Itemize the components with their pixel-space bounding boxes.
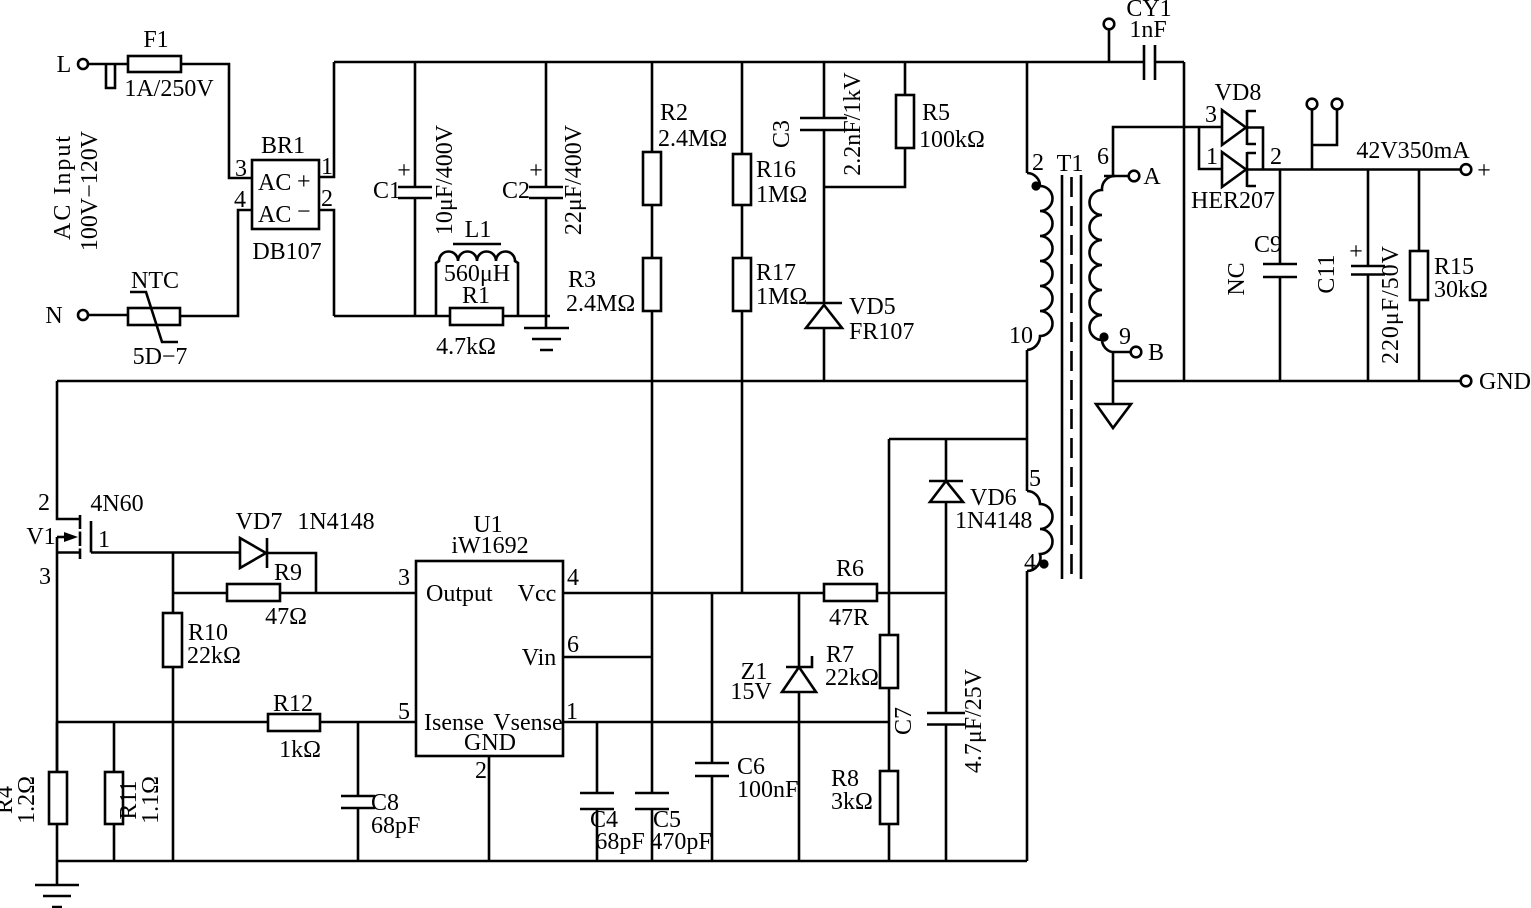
terminal N (45, 303, 88, 329)
capacitor C3 2.2nF/1kV (769, 62, 866, 187)
wire secondary ground rail (1113, 380, 1461, 383)
node B terminal (1112, 340, 1164, 366)
svg-text:VD7: VD7 (236, 509, 283, 535)
wire pin9 to secondary ground rail (1112, 352, 1115, 404)
svg-text:2: 2 (475, 758, 487, 784)
svg-text:1nF: 1nF (1129, 17, 1166, 43)
MOSFET V1 4N60 (26, 381, 143, 772)
svg-text:VD5: VD5 (849, 294, 896, 320)
svg-text:1MΩ: 1MΩ (756, 284, 807, 310)
svg-text:FR107: FR107 (849, 319, 914, 345)
svg-text:C7: C7 (891, 707, 917, 735)
svg-text:1N4148: 1N4148 (297, 509, 374, 535)
svg-text:4: 4 (567, 565, 579, 591)
wire primary ground rail (57, 860, 1027, 863)
svg-text:1: 1 (1206, 144, 1218, 170)
svg-text:+: + (1477, 158, 1491, 184)
svg-text:22μF/400V: 22μF/400V (561, 124, 587, 235)
wire DC- input rail (334, 315, 550, 318)
wire U1 pin6 Vin to R3/C5 node (563, 656, 652, 659)
svg-text:C11: C11 (1314, 254, 1340, 293)
svg-text:10μF/400V: 10μF/400V (432, 124, 458, 235)
svg-text:22kΩ: 22kΩ (187, 643, 241, 669)
ground (secondary, triangle) (1096, 404, 1131, 428)
svg-text:+: + (1349, 239, 1363, 265)
capacitor C4 68pF (580, 722, 645, 861)
IC U1 iW1692 (398, 512, 579, 784)
svg-text:C9: C9 (1254, 232, 1282, 258)
resistor R17 1M (733, 258, 807, 593)
transformer core (1062, 175, 1081, 579)
capacitor C2 22uF/400V (502, 62, 587, 316)
svg-text:30kΩ: 30kΩ (1434, 277, 1488, 303)
svg-text:Output: Output (426, 581, 493, 607)
svg-text:R9: R9 (274, 560, 302, 586)
svg-text:Vin: Vin (522, 645, 557, 671)
svg-text:1A/250V: 1A/250V (124, 76, 214, 102)
capacitor C7 4.7uF/25V (891, 593, 987, 861)
svg-text:F1: F1 (143, 27, 168, 53)
svg-text:R5: R5 (922, 100, 950, 126)
wire primary switch-node rail (57, 380, 1027, 383)
svg-text:R6: R6 (836, 556, 864, 582)
wire aux pin4 to primary ground rail (1026, 571, 1029, 861)
resistor R5 100k (824, 62, 985, 187)
diode VD7 1N4148 (236, 509, 375, 593)
svg-text:+: + (297, 169, 311, 195)
ground (primary DC-) (524, 316, 569, 350)
svg-text:3kΩ: 3kΩ (831, 789, 873, 815)
svg-text:1kΩ: 1kΩ (279, 737, 321, 763)
svg-text:R1: R1 (462, 283, 490, 309)
svg-text:10: 10 (1009, 323, 1033, 349)
bridge rectifier BR1 DB107 (234, 133, 333, 265)
svg-text:1.1Ω: 1.1Ω (138, 776, 164, 824)
svg-text:V1: V1 (26, 524, 55, 550)
svg-text:2: 2 (38, 490, 50, 516)
svg-text:22kΩ: 22kΩ (825, 665, 879, 691)
resistor R3 2.4M (566, 258, 661, 793)
svg-text:220μF/50V: 220μF/50V (1378, 245, 1404, 364)
wire N to NTC (88, 314, 128, 317)
svg-text:AC: AC (258, 202, 291, 228)
capacitor C6 100nF (695, 593, 798, 861)
inductor L1 560uH (436, 217, 518, 316)
svg-text:3: 3 (39, 564, 51, 590)
svg-text:5: 5 (398, 699, 410, 725)
svg-text:5D−7: 5D−7 (133, 344, 188, 370)
svg-text:6: 6 (567, 632, 579, 658)
svg-text:A: A (1143, 164, 1161, 190)
svg-text:4.7kΩ: 4.7kΩ (436, 334, 496, 360)
wire BR1 pin2 to DC- rail (319, 210, 334, 316)
svg-text:R16: R16 (756, 157, 796, 183)
svg-text:68pF: 68pF (595, 829, 644, 855)
wire R9 node to U1 pin3 (316, 592, 416, 595)
svg-text:GND: GND (1479, 369, 1531, 395)
resistor R1 4.7k (436, 283, 503, 360)
wire DC+ top rail (334, 61, 1144, 64)
svg-text:4N60: 4N60 (90, 491, 143, 517)
svg-text:L: L (57, 52, 72, 78)
zener Z1 15V (730, 593, 816, 861)
thermistor NTC 5D-7 (128, 268, 187, 370)
svg-text:2.4MΩ: 2.4MΩ (658, 126, 727, 152)
svg-text:47R: 47R (829, 605, 869, 631)
svg-text:N: N (45, 303, 62, 329)
svg-text:15V: 15V (730, 679, 772, 705)
wire BR1 pin1 to DC+ rail (319, 62, 334, 177)
svg-text:NTC: NTC (131, 268, 179, 294)
resistor R15 30k (1410, 170, 1488, 382)
wire NTC to BR1 pin4 (180, 210, 252, 316)
capacitor C9 (NC) (1224, 170, 1297, 382)
output connector pins (1307, 99, 1343, 170)
connector stub below L wire (106, 64, 115, 88)
capacitor C5 470pF (635, 793, 712, 861)
wire CY1 to secondary ground (1183, 62, 1186, 381)
svg-text:−: − (297, 199, 311, 225)
resistor R12 1k (268, 691, 321, 763)
svg-text:R2: R2 (660, 100, 688, 126)
label AC Input 100V-120V (50, 130, 103, 251)
svg-text:2.2nF/1kV: 2.2nF/1kV (840, 72, 866, 176)
svg-text:1: 1 (98, 527, 110, 553)
ground (primary, bottom-left) (35, 861, 79, 907)
svg-text:5: 5 (1029, 466, 1041, 492)
svg-text:1N4148: 1N4148 (955, 508, 1032, 534)
wire Vsense line (563, 721, 889, 724)
resistor R11 1.1R (105, 722, 164, 861)
wire output rail 42V (1247, 138, 1470, 170)
svg-text:BR1: BR1 (261, 133, 305, 159)
svg-text:Vcc: Vcc (518, 581, 557, 607)
terminal + output (1461, 158, 1491, 184)
resistor R16 1M (733, 62, 807, 258)
svg-text:3: 3 (398, 565, 410, 591)
terminal L (57, 52, 88, 78)
svg-text:C3: C3 (769, 120, 795, 148)
resistor R9 47R (173, 560, 316, 630)
svg-text:4: 4 (234, 187, 246, 213)
svg-text:R12: R12 (273, 691, 313, 717)
svg-text:iW1692: iW1692 (451, 533, 528, 559)
transformer T1 secondary winding pins 6-9 (1090, 144, 1132, 352)
svg-text:T1: T1 (1057, 151, 1084, 177)
svg-text:2: 2 (1270, 144, 1282, 170)
svg-text:3: 3 (1205, 102, 1217, 128)
capacitor CY1 1nF with terminal (1104, 0, 1184, 80)
svg-text:68pF: 68pF (371, 813, 420, 839)
transformer T1 auxiliary winding pins 5-4 (1024, 466, 1053, 576)
svg-text:AC Input: AC Input (50, 136, 76, 240)
resistor R7 22k (825, 439, 898, 722)
svg-text:GND: GND (464, 730, 516, 756)
dual diode VD8 HER207 (1191, 80, 1282, 214)
terminal GND (1461, 369, 1531, 395)
wire Vcc line (563, 592, 946, 595)
svg-text:DB107: DB107 (252, 239, 321, 265)
diode VD6 1N4148 (929, 439, 1032, 593)
svg-text:4.7μF/25V: 4.7μF/25V (961, 668, 987, 773)
svg-text:1.2Ω: 1.2Ω (14, 776, 40, 824)
wire fuse to BR1 pin3 (181, 64, 252, 178)
wire Isense line (57, 721, 416, 724)
svg-text:100V−120V: 100V−120V (77, 130, 103, 251)
diode VD5 FR107 (806, 187, 914, 381)
svg-text:+: + (529, 158, 543, 184)
resistor R2 2.4M (643, 62, 727, 258)
resistor R6 47R (824, 556, 877, 631)
capacitor C8 68pF (341, 722, 420, 861)
wire gate node down to R9/R10 (172, 553, 175, 614)
transformer T1 primary winding pins 2-10 (1009, 62, 1083, 350)
capacitor C1 10uF/400V (373, 62, 458, 316)
fuse F1 1A/250V (124, 27, 214, 102)
svg-text:1MΩ: 1MΩ (756, 182, 807, 208)
svg-text:VD8: VD8 (1215, 80, 1262, 106)
resistor R4 1.2R (0, 722, 67, 861)
svg-text:42V350mA: 42V350mA (1356, 138, 1470, 164)
svg-text:6: 6 (1097, 144, 1109, 170)
svg-text:L1: L1 (465, 217, 492, 243)
svg-text:47Ω: 47Ω (265, 604, 307, 630)
capacitor C11 220uF/50V (1314, 170, 1404, 382)
svg-text:NC: NC (1224, 262, 1250, 295)
node A terminal (1104, 164, 1161, 190)
svg-text:100kΩ: 100kΩ (919, 127, 985, 153)
svg-text:+: + (397, 158, 411, 184)
svg-text:2.4MΩ: 2.4MΩ (566, 291, 635, 317)
svg-text:C2: C2 (502, 178, 530, 204)
svg-text:R17: R17 (756, 260, 796, 286)
wire L to fuse (88, 63, 128, 66)
wire pin10 node down to aux winding (1026, 350, 1029, 491)
svg-text:2: 2 (321, 186, 333, 212)
svg-text:100nF: 100nF (737, 777, 798, 803)
svg-text:AC: AC (258, 170, 291, 196)
resistor R8 3k (831, 722, 898, 861)
svg-text:B: B (1148, 340, 1164, 366)
svg-text:2: 2 (1032, 150, 1044, 176)
svg-text:HER207: HER207 (1191, 188, 1275, 214)
svg-text:3: 3 (235, 156, 247, 182)
wire U1 pin2 GND (488, 756, 491, 861)
resistor R10 22k (163, 613, 241, 861)
svg-text:470pF: 470pF (650, 829, 711, 855)
wire pin6 to VD8 anodes (1113, 127, 1222, 176)
svg-text:9: 9 (1119, 324, 1131, 350)
wire aux node horizontal (889, 438, 1027, 441)
svg-text:R3: R3 (568, 267, 596, 293)
wire gate line (91, 551, 240, 554)
